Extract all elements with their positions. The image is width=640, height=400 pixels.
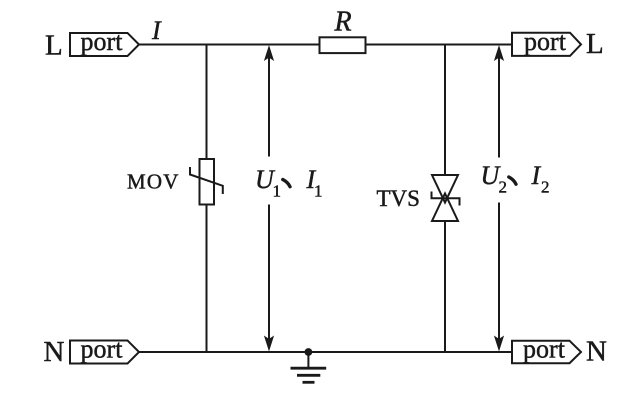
svg-text:1: 1 [314, 182, 323, 201]
port P3 input N [70, 335, 139, 364]
svg-text:port: port [81, 27, 124, 56]
svg-text:port: port [523, 335, 566, 364]
arrow U1 upper head [264, 45, 274, 61]
wire top rail right segment [365, 44, 512, 46]
arrow U2 measurement upper segment [498, 57, 500, 158]
wire TVS branch top [444, 45, 446, 175]
arrow U1 measurement lower segment [268, 205, 270, 340]
TVS bottom triangle [432, 194, 458, 222]
varistor MOV body [200, 159, 215, 205]
resistor R1 body [320, 37, 366, 53]
TVS zener bar [432, 192, 460, 206]
wire MOV branch bottom [206, 205, 208, 353]
svg-text:TVS: TVS [377, 186, 420, 211]
svg-text:N: N [586, 336, 607, 368]
port P4 output N [512, 335, 581, 364]
svg-text:I: I [531, 161, 542, 190]
ground junction dot [305, 348, 313, 356]
svg-text:I: I [151, 16, 162, 45]
TVS top triangle [432, 175, 458, 203]
svg-text:1: 1 [273, 182, 282, 201]
wire bottom rail [138, 351, 512, 353]
label U1 I1 [255, 165, 323, 201]
arrow U2 measurement lower segment [498, 203, 500, 340]
svg-text:2: 2 [499, 178, 508, 197]
svg-text:L: L [586, 28, 604, 60]
label U2 I2 [481, 161, 550, 197]
port P2 output L [512, 27, 581, 56]
svg-text:port: port [524, 27, 567, 56]
ground symbol [291, 352, 327, 382]
arrow U2 upper head [494, 45, 504, 61]
wire TVS branch bottom [444, 221, 446, 352]
svg-text:2: 2 [541, 178, 550, 197]
port P1 input L [70, 27, 139, 56]
svg-text:L: L [45, 30, 63, 62]
wire top rail left segment [138, 44, 320, 46]
arrow U1 measurement upper segment [268, 57, 270, 157]
arrow U2 lower head [494, 336, 504, 352]
wire MOV branch top [206, 45, 208, 159]
svg-text:N: N [44, 336, 65, 368]
varistor MOV diagonal stroke [190, 167, 223, 194]
arrow U1 lower head [264, 336, 274, 352]
svg-text:MOV: MOV [127, 170, 180, 194]
svg-text:port: port [81, 335, 124, 364]
svg-text:R: R [334, 7, 352, 38]
